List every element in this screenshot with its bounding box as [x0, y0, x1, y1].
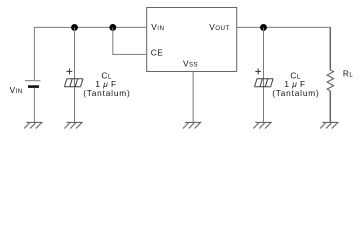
svg-text:(Tantalum): (Tantalum) [272, 88, 319, 98]
wire VOUT rail [237, 26, 331, 28]
plus sign input cap [67, 69, 73, 75]
wire CE branch [113, 27, 147, 54]
wire resistor to ground [329, 91, 331, 122]
capacitor CL input (tantalum) [64, 79, 83, 87]
ground (load) [320, 122, 339, 128]
node junction input cap [71, 24, 78, 31]
ground (output cap) [253, 122, 272, 128]
wire top input rail [34, 26, 146, 28]
wire to load resistor [329, 27, 331, 69]
ground (VSS) [183, 122, 202, 128]
resistor RL [327, 70, 334, 91]
node junction CE [109, 24, 116, 31]
wire VSS to ground [192, 72, 194, 123]
wire input cap branch [74, 27, 76, 122]
wire battery to ground [33, 88, 35, 122]
svg-text:(Tantalum): (Tantalum) [83, 88, 130, 98]
IC U1 (voltage regulator) [147, 8, 237, 72]
node junction output cap [260, 24, 267, 31]
battery source VIN positive plate [25, 80, 41, 82]
wire output cap branch [263, 27, 265, 122]
ground (battery) [24, 122, 43, 128]
wire left branch down to battery [33, 27, 35, 80]
plus sign output cap [255, 69, 261, 75]
ground (input cap) [64, 122, 83, 128]
battery source VIN negative plate [28, 85, 39, 88]
svg-text:CE: CE [151, 48, 163, 58]
capacitor CL output (tantalum) [255, 79, 274, 87]
